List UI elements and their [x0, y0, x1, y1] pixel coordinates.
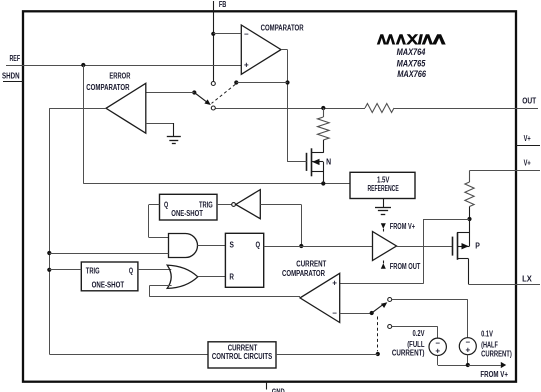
- svg-text:–: –: [332, 308, 337, 317]
- svg-text:+: +: [465, 346, 470, 355]
- svg-text:COMPARATOR: COMPARATOR: [86, 82, 130, 92]
- svg-text:+: +: [435, 346, 440, 355]
- svg-text:Q: Q: [164, 200, 168, 210]
- svg-text:ONE-SHOT: ONE-SHOT: [92, 280, 125, 290]
- svg-text:REFERENCE: REFERENCE: [367, 183, 398, 193]
- svg-text:P: P: [475, 240, 480, 250]
- svg-text:CURRENT: CURRENT: [296, 258, 327, 268]
- svg-text:FB: FB: [219, 0, 227, 9]
- svg-text:+: +: [244, 60, 249, 69]
- svg-text:R: R: [229, 271, 234, 281]
- svg-text:MAX766: MAX766: [397, 69, 427, 79]
- svg-text:Q: Q: [129, 266, 133, 276]
- svg-text:ONE-SHOT: ONE-SHOT: [171, 208, 203, 218]
- svg-text:SHDN: SHDN: [2, 70, 20, 80]
- svg-text:–: –: [244, 29, 249, 38]
- svg-text:V+: V+: [524, 133, 531, 143]
- svg-text:COMPARATOR: COMPARATOR: [261, 23, 305, 33]
- svg-text:MAX765: MAX765: [397, 58, 427, 68]
- svg-text:GND: GND: [272, 387, 285, 392]
- svg-text:CURRENT): CURRENT): [481, 348, 512, 358]
- svg-text:FROM V+: FROM V+: [480, 369, 508, 379]
- svg-text:S: S: [230, 239, 235, 249]
- svg-text:TRIG: TRIG: [86, 265, 100, 275]
- svg-text:LX: LX: [522, 273, 532, 283]
- svg-text:CURRENT): CURRENT): [392, 348, 425, 358]
- svg-text:0.2V: 0.2V: [413, 328, 425, 338]
- svg-text:N: N: [326, 156, 331, 166]
- svg-text:+: +: [332, 279, 337, 288]
- svg-text:REF: REF: [9, 53, 20, 63]
- svg-text:OUT: OUT: [522, 95, 537, 105]
- svg-text:MAX764: MAX764: [397, 47, 426, 57]
- svg-text:COMPARATOR: COMPARATOR: [282, 268, 326, 278]
- svg-text:Q: Q: [256, 239, 261, 249]
- svg-text:V+: V+: [524, 157, 531, 167]
- svg-text:FROM OUT: FROM OUT: [390, 261, 421, 271]
- svg-text:0.1V: 0.1V: [481, 329, 493, 339]
- svg-text:FROM V+: FROM V+: [390, 221, 415, 231]
- svg-text:ERROR: ERROR: [109, 70, 131, 80]
- svg-text:CONTROL CIRCUITS: CONTROL CIRCUITS: [212, 351, 272, 361]
